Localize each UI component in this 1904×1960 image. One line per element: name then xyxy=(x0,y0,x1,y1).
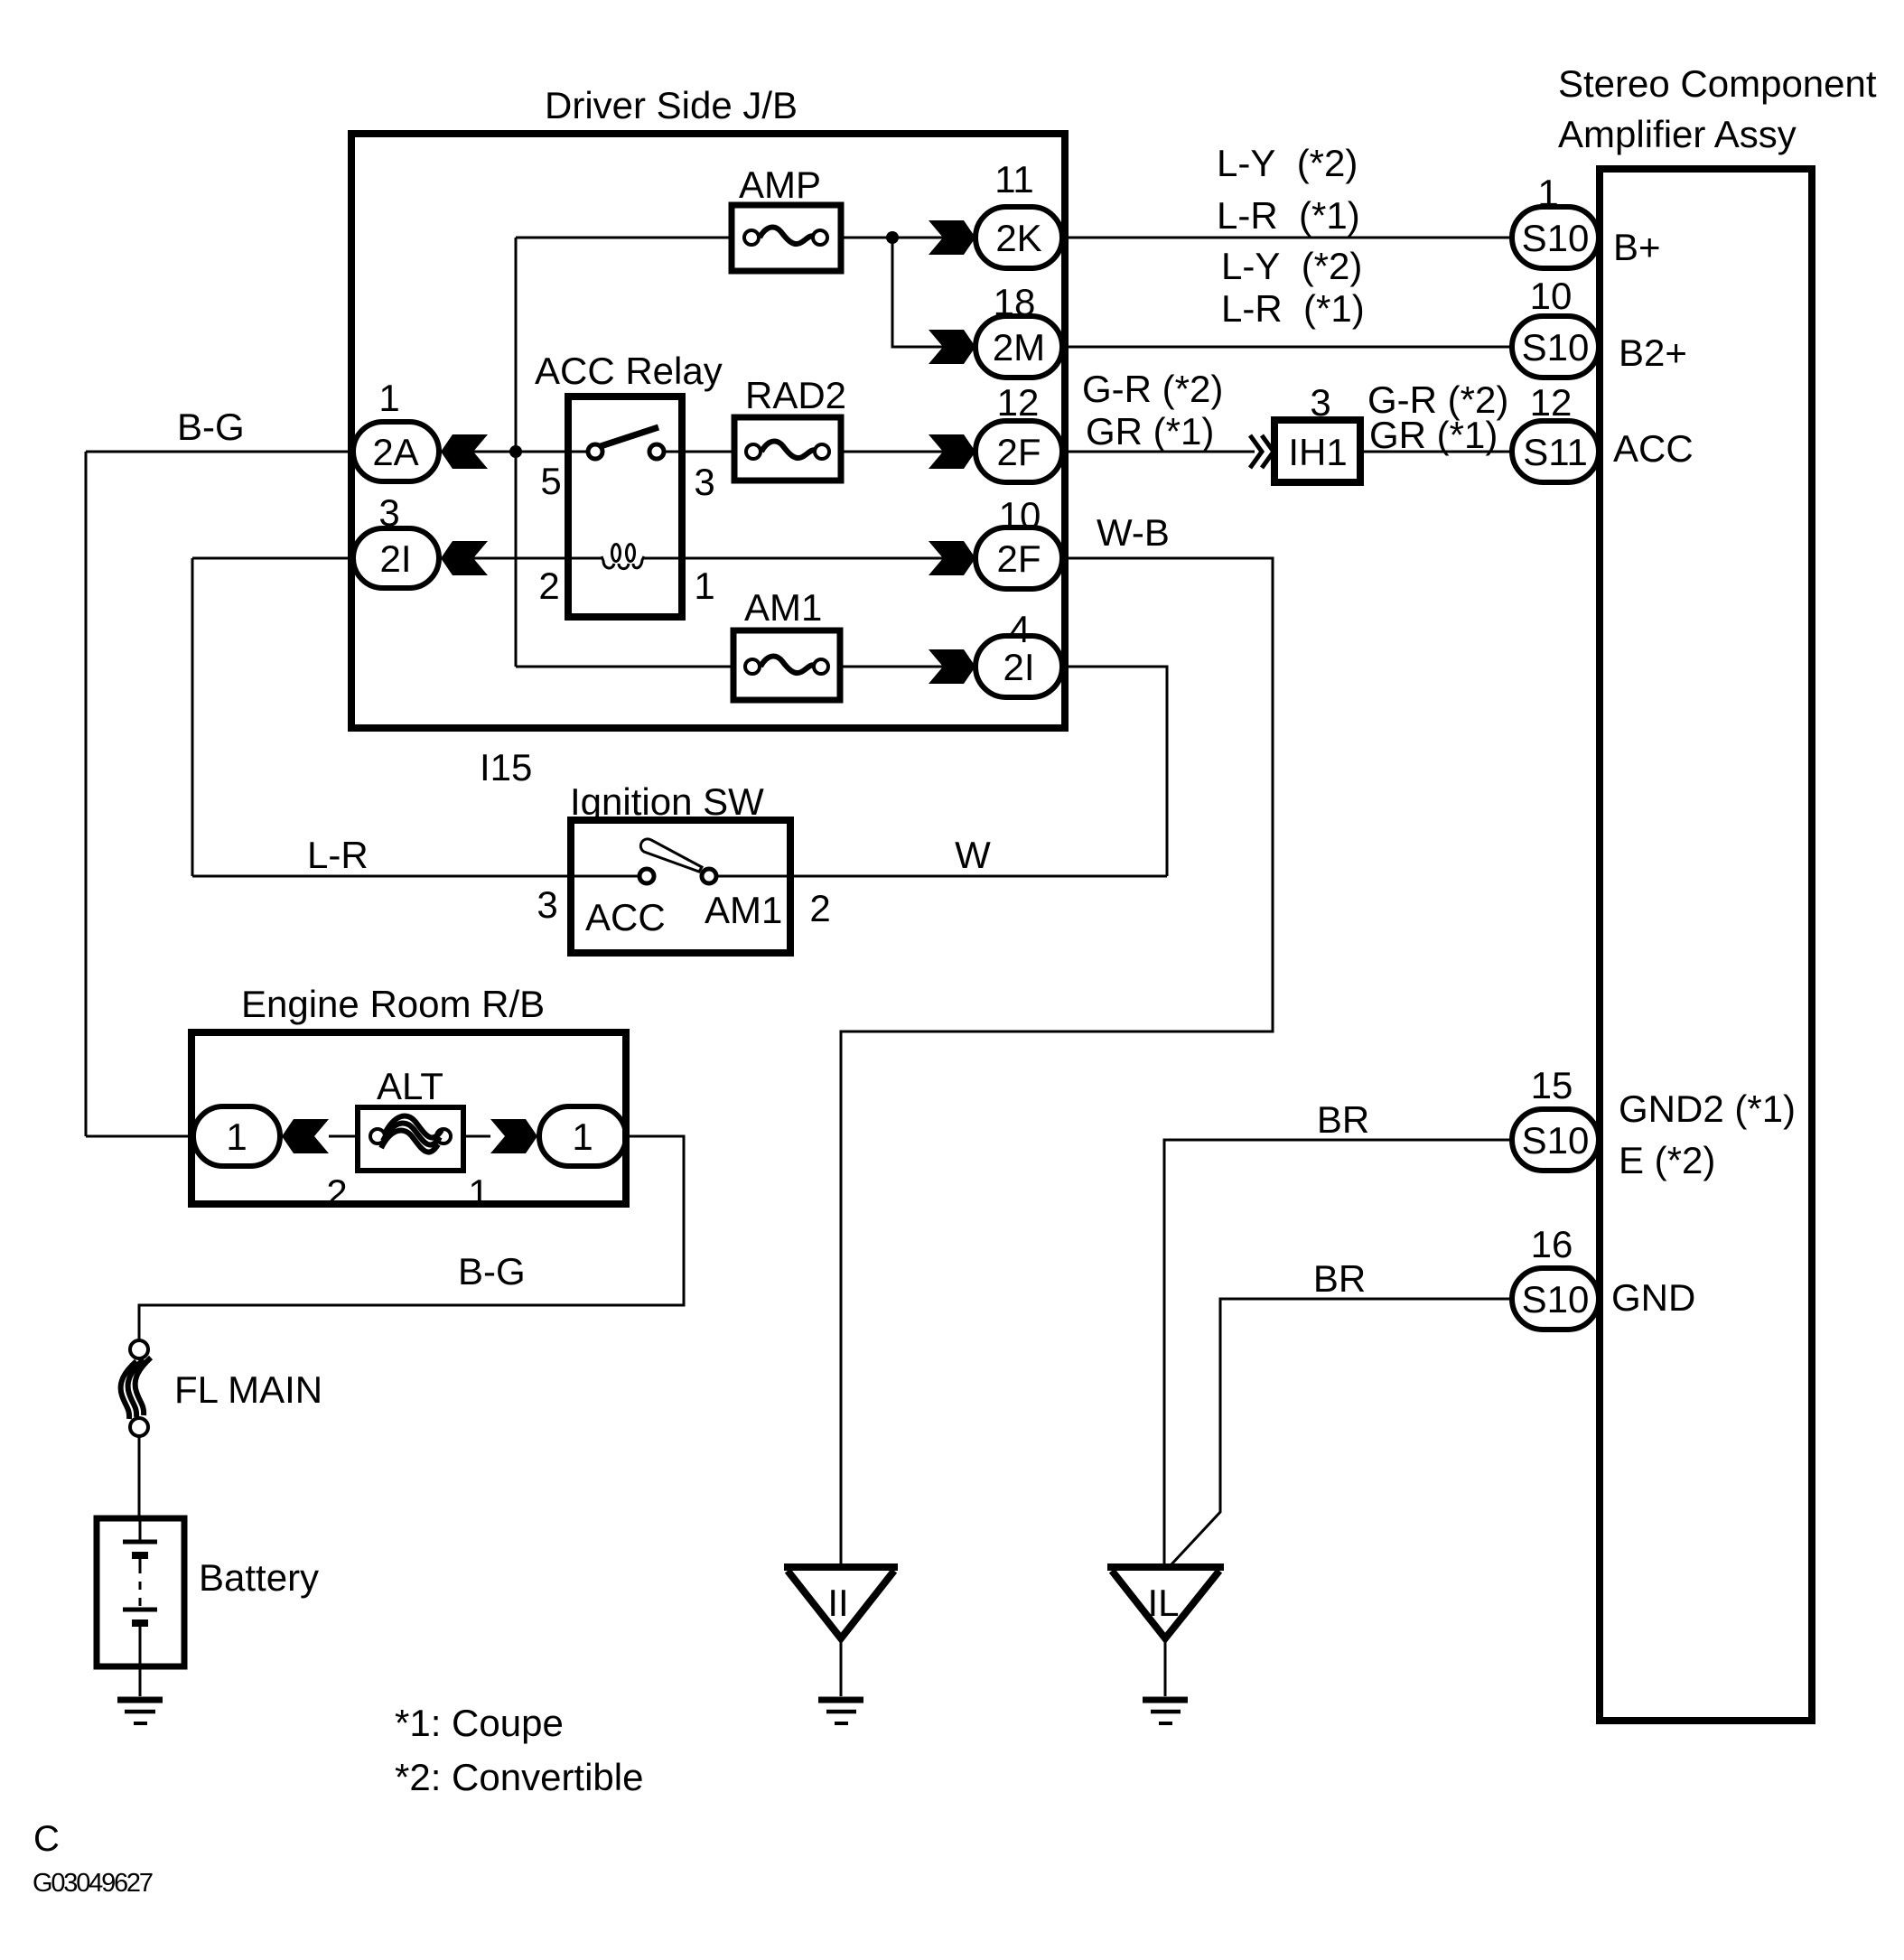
svg-text:2F: 2F xyxy=(996,537,1041,580)
arrow into 2A xyxy=(441,434,488,469)
svg-text:3: 3 xyxy=(537,883,557,926)
svg-text:GND: GND xyxy=(1611,1276,1695,1319)
connector IH1 pin 3 xyxy=(1274,381,1360,482)
svg-text:12: 12 xyxy=(997,381,1040,424)
svg-text:*2: Convertible: *2: Convertible xyxy=(395,1756,643,1798)
svg-text:W-B: W-B xyxy=(1097,511,1170,554)
relay contact circle pin 3 xyxy=(649,444,664,459)
svg-text:L-R (*1): L-R (*1) xyxy=(1221,287,1365,330)
svg-text:1: 1 xyxy=(694,565,714,607)
chevrons into IH1 xyxy=(1250,435,1274,468)
arrow into 2M xyxy=(929,330,975,364)
wire to AMP fuse xyxy=(516,237,732,239)
svg-text:*1: Coupe: *1: Coupe xyxy=(395,1702,564,1744)
svg-text:2I: 2I xyxy=(1003,646,1034,688)
wire battery to ground xyxy=(139,1666,142,1696)
svg-text:ALT: ALT xyxy=(377,1065,443,1107)
relay coil xyxy=(602,545,644,569)
connector oval S10 pin 1 B+ xyxy=(1512,172,1599,268)
wire 2F(12) to IH1 xyxy=(1062,451,1255,453)
svg-text:AM1: AM1 xyxy=(744,586,822,629)
wire BR to S10(15) and IL xyxy=(1164,1140,1512,1567)
svg-text:2A: 2A xyxy=(372,431,418,473)
svg-text:5: 5 xyxy=(540,460,561,502)
fusible link FL MAIN xyxy=(121,1340,151,1436)
svg-text:ACC: ACC xyxy=(1613,427,1694,470)
svg-text:B+: B+ xyxy=(1613,226,1661,268)
svg-text:3: 3 xyxy=(694,461,714,503)
arrow into 2I(3) xyxy=(441,541,488,575)
wire B-G bottom from engine R/B to FL MAIN xyxy=(139,1136,684,1340)
svg-text:I15: I15 xyxy=(480,746,532,789)
svg-text:Ignition SW: Ignition SW xyxy=(570,780,764,823)
svg-text:Battery: Battery xyxy=(199,1556,319,1599)
node junction dot AMP branch xyxy=(886,231,899,244)
Driver Side J/B box I15 xyxy=(351,134,1065,728)
relay coil wire stubs xyxy=(568,557,682,560)
wire relay pin1 to 2F(10) xyxy=(682,557,975,560)
wire AMP to 2K xyxy=(841,237,975,239)
relay contact circle pin 5 xyxy=(588,444,602,459)
Ignition SW box xyxy=(571,820,790,953)
svg-text:1: 1 xyxy=(226,1115,247,1158)
svg-text:2: 2 xyxy=(326,1171,347,1214)
svg-text:11: 11 xyxy=(994,158,1034,201)
svg-text:ACC Relay: ACC Relay xyxy=(535,350,723,392)
wire arrow to ALT xyxy=(329,1135,358,1138)
wire 2I(4) out xyxy=(1062,667,1167,876)
svg-text:S10: S10 xyxy=(1522,1278,1590,1321)
wire IH1 to S11 ACC xyxy=(1360,451,1512,453)
ground battery xyxy=(117,1700,163,1723)
svg-text:1: 1 xyxy=(1537,172,1558,214)
wire L-R vertical xyxy=(191,558,194,876)
connector oval 2F pin 12 xyxy=(975,381,1062,482)
ground II xyxy=(818,1700,863,1723)
svg-text:S11: S11 xyxy=(1523,431,1588,473)
ignition key lever xyxy=(640,839,702,872)
ignition contact circle AM1 xyxy=(702,869,716,883)
Battery xyxy=(97,1518,184,1666)
svg-text:L-R: L-R xyxy=(307,834,369,876)
arrow into 2K xyxy=(929,220,975,255)
ignition contact circle ACC xyxy=(639,869,654,883)
svg-text:B-G: B-G xyxy=(458,1250,526,1293)
connector oval 2I pin 4 xyxy=(975,608,1062,697)
svg-text:L-R (*1): L-R (*1) xyxy=(1217,194,1360,237)
arrow into 2F(12) xyxy=(929,434,975,469)
fuse AMP xyxy=(732,205,841,271)
svg-text:S10: S10 xyxy=(1522,217,1590,259)
connector oval S10 pin 10 B2+ xyxy=(1512,275,1599,378)
wire 2K to S10 B+ xyxy=(1062,237,1512,239)
arrow into left oval 1 xyxy=(282,1119,329,1153)
svg-text:10: 10 xyxy=(999,494,1041,537)
svg-text:GR (*1): GR (*1) xyxy=(1086,410,1214,453)
svg-text:FL MAIN: FL MAIN xyxy=(174,1368,322,1411)
fuse AM1 xyxy=(733,630,840,700)
svg-text:S10: S10 xyxy=(1522,326,1590,369)
svg-text:2I: 2I xyxy=(379,537,411,580)
svg-text:G03049627: G03049627 xyxy=(33,1869,154,1898)
connector oval S10 pin 16 GND xyxy=(1512,1223,1599,1330)
svg-text:GND2 (*1): GND2 (*1) xyxy=(1619,1087,1796,1130)
wire 2I(3) stub xyxy=(192,557,353,560)
svg-text:IL: IL xyxy=(1147,1582,1179,1624)
arrow into 2F(10) xyxy=(929,541,975,575)
svg-text:2K: 2K xyxy=(995,217,1041,259)
wire ALT to right arrow xyxy=(463,1135,490,1138)
svg-text:E (*2): E (*2) xyxy=(1619,1139,1715,1181)
svg-text:3: 3 xyxy=(1310,381,1330,424)
svg-text:L-Y (*2): L-Y (*2) xyxy=(1217,142,1358,184)
svg-text:B2+: B2+ xyxy=(1619,331,1687,374)
fuse RAD2 xyxy=(734,417,841,481)
wire AMP/AM1 vertical feed xyxy=(515,238,518,667)
wire B-G from left vertical to 2A xyxy=(86,451,353,453)
svg-text:Driver Side J/B: Driver Side J/B xyxy=(545,84,798,126)
wire II to ground xyxy=(840,1638,843,1696)
Engine Room R/B box xyxy=(191,1032,626,1204)
wire W-B from 2F(10) to II triangle xyxy=(841,558,1273,1567)
svg-text:AMP: AMP xyxy=(739,163,821,206)
wire left vertical to Engine Room R/B xyxy=(85,452,88,1136)
relay switch blade xyxy=(601,427,658,446)
wire AM1 to 2I(4) xyxy=(840,666,975,668)
connector oval 2I pin 3 xyxy=(353,491,439,588)
wire to AM1 fuse xyxy=(516,666,733,668)
svg-text:1: 1 xyxy=(572,1115,593,1158)
svg-text:15: 15 xyxy=(1531,1064,1573,1106)
connector oval S11 pin 12 ACC xyxy=(1512,381,1599,482)
svg-text:IH1: IH1 xyxy=(1288,431,1347,473)
svg-text:B-G: B-G xyxy=(177,406,245,448)
wire relay pin3 to RAD2 xyxy=(682,451,734,453)
svg-text:Amplifier Assy: Amplifier Assy xyxy=(1558,113,1797,155)
node junction dot 2A feed xyxy=(509,445,522,458)
svg-text:12: 12 xyxy=(1530,381,1573,424)
svg-text:1: 1 xyxy=(468,1171,489,1214)
svg-text:C: C xyxy=(33,1819,60,1859)
svg-text:L-Y (*2): L-Y (*2) xyxy=(1221,245,1362,287)
Stereo Component Amplifier Assy box xyxy=(1600,169,1812,1721)
ground IL xyxy=(1143,1700,1188,1723)
connector oval 2M pin 18 xyxy=(975,281,1062,378)
triangle connector IL xyxy=(1107,1567,1224,1638)
triangle connector II xyxy=(784,1567,898,1638)
svg-text:BR: BR xyxy=(1317,1098,1369,1141)
connector oval 2K pin 11 xyxy=(975,158,1062,268)
arrow into right oval 1 xyxy=(490,1119,537,1153)
wire branch vertical to 2M xyxy=(892,238,975,347)
svg-text:2: 2 xyxy=(538,565,559,607)
svg-text:4: 4 xyxy=(1009,608,1030,650)
wire 2I(3) to relay coil pin 2 xyxy=(439,557,568,560)
fusible link ALT xyxy=(358,1107,463,1171)
wire ignition AM1 to W vertical xyxy=(716,875,1167,878)
wire FL MAIN to battery xyxy=(138,1436,141,1518)
wire BR to S10(16) and IL diagonal xyxy=(1171,1299,1512,1565)
arrow into 2I(4) xyxy=(929,649,975,684)
svg-text:2: 2 xyxy=(809,887,830,929)
svg-text:3: 3 xyxy=(378,491,399,534)
wire RAD2 to 2F(12) xyxy=(841,451,975,453)
svg-text:ACC: ACC xyxy=(585,896,666,938)
wire L-R to ignition xyxy=(192,875,639,878)
wire IL to ground xyxy=(1164,1638,1167,1696)
svg-text:S10: S10 xyxy=(1522,1119,1590,1162)
wire 2M to S10 B2+ xyxy=(1062,346,1512,349)
svg-text:2F: 2F xyxy=(996,431,1041,473)
wire left vertical into engine oval 1 xyxy=(86,1135,195,1138)
svg-text:2M: 2M xyxy=(993,326,1045,369)
svg-text:10: 10 xyxy=(1530,275,1573,317)
svg-text:G-R (*2): G-R (*2) xyxy=(1082,368,1223,410)
wire 2A to ACC relay pin 5 xyxy=(439,451,568,453)
connector oval 1 (left, pin 2 side) xyxy=(193,1106,280,1166)
relay switch wire stubs xyxy=(568,451,682,453)
svg-text:18: 18 xyxy=(994,281,1036,323)
connector oval 2A pin 1 xyxy=(353,377,439,481)
ACC Relay box xyxy=(568,397,682,617)
svg-text:W: W xyxy=(955,834,991,876)
svg-text:BR: BR xyxy=(1313,1257,1366,1300)
svg-text:Stereo Component: Stereo Component xyxy=(1558,62,1877,105)
svg-text:Engine Room R/B: Engine Room R/B xyxy=(241,983,545,1025)
connector oval 1 (right, pin 1 side) xyxy=(539,1106,626,1166)
svg-text:GR (*1): GR (*1) xyxy=(1369,414,1498,456)
svg-text:16: 16 xyxy=(1531,1223,1573,1265)
svg-text:AM1: AM1 xyxy=(705,889,782,931)
connector oval 2F pin 10 xyxy=(975,494,1062,589)
connector oval S10 pin 15 GND2 xyxy=(1512,1064,1599,1171)
svg-text:RAD2: RAD2 xyxy=(745,374,846,416)
svg-text:II: II xyxy=(827,1582,848,1624)
svg-text:1: 1 xyxy=(378,377,399,419)
